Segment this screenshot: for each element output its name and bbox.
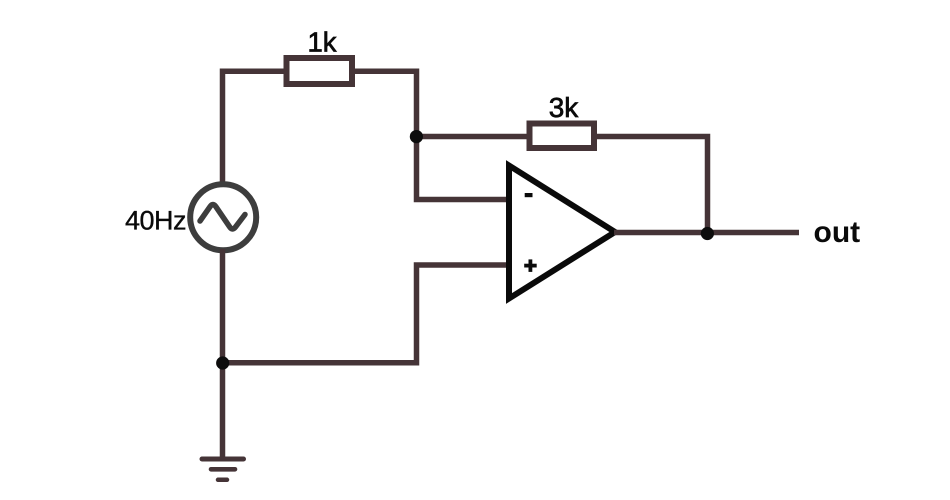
resistor R2 xyxy=(530,124,595,149)
wire: source top to R1 left xyxy=(223,71,287,186)
wire: bottom node to non-inverting branch xyxy=(223,265,510,363)
svg-text:40Hz: 40Hz xyxy=(125,206,186,236)
ground xyxy=(202,459,244,480)
pin label + xyxy=(524,259,537,272)
sine symbol xyxy=(200,205,245,229)
wire: R2 right to output node xyxy=(594,137,708,233)
node: ground junction xyxy=(216,356,229,369)
AC source V1 xyxy=(190,184,256,250)
wire: R1 right to inverting input xyxy=(352,71,509,199)
resistor R1 xyxy=(287,58,353,84)
wire: source bottom to ground xyxy=(220,249,226,457)
node: output junction xyxy=(701,227,714,240)
node: feedback junction xyxy=(410,130,423,143)
svg-text:out: out xyxy=(814,216,861,249)
op-amp U1 xyxy=(509,166,615,299)
svg-text:1k: 1k xyxy=(307,27,336,58)
wire: op-amp output to out xyxy=(614,230,799,236)
svg-text:3k: 3k xyxy=(549,92,580,123)
pin label - xyxy=(525,193,533,197)
wire: feedback node to R2 left xyxy=(417,134,530,140)
